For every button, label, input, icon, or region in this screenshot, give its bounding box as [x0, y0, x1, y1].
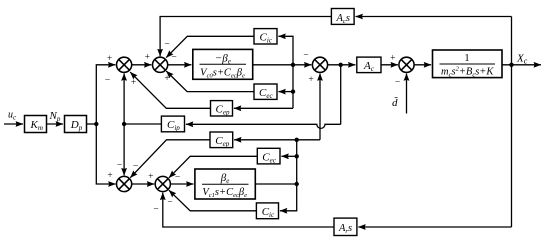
svg-text:+: + [107, 171, 112, 181]
junction dot Cec lower tap [295, 154, 299, 158]
summing junction S3 [312, 57, 327, 72]
svg-text:+: + [164, 74, 169, 84]
junction dot Cec upper tap [291, 89, 295, 93]
junction dot pump line [94, 122, 98, 126]
svg-text:uc: uc [8, 110, 17, 122]
wire feedback vertical right [511, 17, 513, 228]
junction dot pb output tap [295, 182, 299, 186]
wire pb horizontal to Cep lower [234, 139, 320, 141]
svg-text:+: + [145, 53, 150, 63]
svg-text:+: + [148, 172, 153, 182]
block Ars bottom feedback [334, 218, 357, 235]
block upper chamber transfer function [193, 49, 253, 79]
svg-text:+: + [308, 75, 313, 85]
svg-text:+: + [390, 53, 395, 63]
wire Cep upper output diagonal to sum1 [130, 72, 210, 108]
block Cec lower [257, 148, 280, 164]
wire pb up to sum3 [319, 73, 321, 139]
summing junction S5 [117, 176, 132, 191]
svg-text:−: − [133, 162, 138, 172]
wire Dp output to junction [87, 123, 97, 125]
wire pa line to sum3 [253, 64, 312, 66]
svg-text:1: 1 [464, 53, 469, 64]
svg-text:−: − [175, 173, 180, 183]
svg-text:Xc: Xc [516, 53, 528, 66]
block Dp [65, 116, 87, 133]
block Ac [357, 57, 381, 73]
junction dot pa tap [291, 63, 295, 67]
wire sum4 to plant [414, 64, 431, 66]
summing junction S6 [155, 176, 170, 191]
svg-text:−: − [117, 161, 122, 171]
wire pa corner to Cep upper [234, 107, 293, 109]
wire pL tap vertical [340, 65, 342, 125]
wire pb distribution vertical [280, 140, 297, 211]
svg-text:+: + [107, 54, 112, 64]
wire Cec upper output diagonal to sum2 [166, 71, 254, 92]
wire Cec lower output diagonal to sum6 [169, 156, 257, 178]
wire lower chamber output pb [255, 183, 296, 185]
wire Cip vertical down to sum5 [123, 124, 125, 175]
svg-text:d̃: d̃ [392, 96, 398, 109]
wire Acs output to sum2 top [160, 17, 331, 57]
svg-text:−: − [153, 205, 158, 215]
block Km [25, 116, 47, 133]
junction dot pL tap [339, 63, 343, 67]
wire sum2 to upper chamber block [167, 64, 191, 66]
block Cic lower [256, 203, 278, 219]
wire pL to Cip with hop [186, 124, 341, 128]
block plant [433, 50, 503, 79]
junction dot pb top tap [295, 138, 299, 142]
summing junction S2 [153, 57, 168, 72]
block Cip [161, 116, 184, 132]
wire sum6 to lower chamber block [170, 183, 194, 185]
wire Ars output to sum6 bottom [163, 193, 334, 227]
block lower chamber transfer function [195, 169, 255, 199]
svg-text:−: − [167, 198, 172, 208]
wire pb tap to Cec lower [281, 155, 296, 157]
block Cep lower [210, 132, 233, 148]
block Acs top feedback [331, 9, 354, 25]
wire sum3 to Ac [327, 64, 355, 66]
wire sum5 to sum6 [131, 183, 154, 185]
svg-text:−: − [171, 53, 176, 63]
summing junction S1 [117, 57, 132, 72]
svg-text:−: − [164, 40, 169, 50]
wire Cip output to vertical [124, 123, 161, 125]
wire Cep lower output diagonal to sum5 [130, 140, 210, 178]
wire Km to Dp [47, 123, 64, 125]
wire pump flow to lower sum [96, 124, 115, 184]
wire Cip vertical up to sum1 [123, 73, 125, 124]
wire Cic upper output diagonal to sum2 [166, 36, 254, 57]
svg-text:Ars: Ars [338, 223, 352, 235]
wire pa distribution vertical [278, 36, 293, 108]
summing junction S4 [399, 57, 414, 72]
junction dot Xc feedback [509, 63, 513, 67]
wire input uc [4, 123, 23, 125]
wire top feedback into Acs [356, 16, 512, 18]
wire Cic lower output diagonal to sum6 [169, 190, 257, 211]
block Cic upper [254, 29, 277, 45]
svg-text:−: − [105, 76, 110, 86]
svg-text:−: − [303, 51, 308, 61]
wire disturbance d into sum4 [406, 73, 408, 113]
wire plant output Xc [502, 64, 541, 66]
block Cep upper [211, 101, 233, 117]
svg-text:+: + [131, 78, 136, 88]
svg-text:−: − [395, 78, 400, 88]
wire sum1 to sum2 [131, 64, 151, 66]
wire bottom feedback into Ars [358, 226, 511, 228]
svg-text:Acs: Acs [336, 13, 350, 25]
block Cec upper [254, 84, 277, 100]
junction dot Cip line [122, 122, 126, 126]
svg-text:Np: Np [49, 110, 61, 123]
wire pump flow vertical [96, 65, 115, 124]
wire pa tap to Cec upper [278, 91, 293, 93]
wire Ac to sum4 [381, 64, 398, 66]
